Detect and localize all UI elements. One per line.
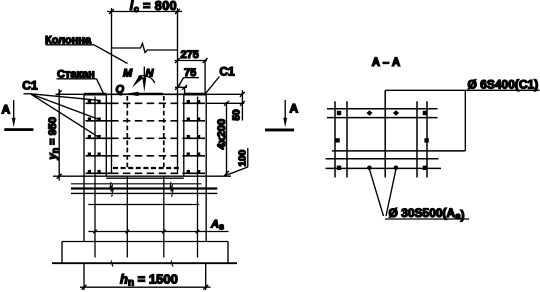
svg-text:A – A: A – A (372, 57, 401, 69)
section horizontal bars (326, 109, 466, 169)
vertical bars below cup (127, 176, 164, 257)
cup bottom (84, 176, 206, 178)
svg-text:50: 50 (232, 109, 243, 121)
column K1 edges (112, 8, 178, 174)
slab bottom (52, 261, 237, 266)
slab step (62, 242, 228, 264)
svg-text:C1: C1 (219, 65, 235, 79)
svg-text:Ø 6S400(C1): Ø 6S400(C1) (468, 78, 539, 92)
dimension 275 (175, 58, 208, 94)
svg-text:4x200: 4x200 (216, 119, 228, 150)
column break line (112, 44, 178, 53)
svg-text:N: N (146, 68, 155, 80)
svg-text:100: 100 (238, 149, 249, 166)
leaders to As bars (370, 170, 396, 216)
dimension 100 (228, 148, 249, 175)
leader bracket for C1 mesh (385, 90, 539, 151)
dimension lc=800 (107, 9, 182, 14)
label Ø30S500(As) (385, 206, 469, 222)
dimension yn=950 (53, 89, 84, 181)
vertical bars in walls (solid) (95, 97, 198, 258)
svg-text:A: A (2, 103, 11, 117)
foundation outer walls (84, 94, 206, 241)
section vertical bars (335, 90, 427, 177)
svg-text:C1: C1 (22, 78, 38, 92)
vertical bars hidden in cup (dashed) (127, 96, 164, 168)
label Стакан (57, 69, 104, 94)
mesh C1 horizontal bars (86, 103, 206, 173)
svg-text:A: A (290, 102, 299, 116)
dimension 50 (232, 90, 245, 120)
section mark A left (2, 100, 34, 131)
label C1 right (205, 65, 235, 94)
dimension hn=1500 (80, 264, 211, 290)
force N arrow (142, 67, 146, 93)
pedestal rebar horizontals (88, 205, 228, 234)
socket top edge (84, 93, 207, 95)
svg-text:275: 275 (181, 49, 199, 61)
right dimension chain extension lines (206, 94, 244, 176)
rebar section dots left (88, 100, 101, 173)
label Колонна (45, 35, 128, 64)
dimension 75 (175, 67, 199, 94)
section rebar dots (335, 110, 429, 170)
joint double line (71, 182, 217, 197)
label C1 left (22, 78, 100, 137)
dimension 4x200 (216, 101, 229, 176)
rebar section dots right (187, 100, 201, 173)
section mark A right (265, 100, 299, 131)
socket cup inner walls (106, 94, 184, 176)
force M curved arrow (132, 75, 155, 88)
force Q arrow (125, 92, 163, 96)
column bottom hidden edge (dashed) (113, 167, 182, 169)
svg-text:yn = 950: yn = 950 (47, 117, 60, 161)
svg-text:M: M (123, 68, 133, 80)
